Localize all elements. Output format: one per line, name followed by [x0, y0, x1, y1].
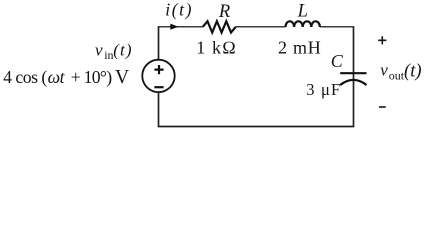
capacitor C top plate [340, 72, 366, 74]
source minus sign [154, 86, 163, 88]
inductor L [286, 21, 320, 27]
output plus sign [378, 36, 386, 44]
wire between inductor and top-right corner [320, 26, 354, 28]
resistor R [203, 21, 236, 32]
output minus sign [379, 106, 386, 108]
capacitor C curved plate [340, 80, 366, 85]
svg-text:(t): (t) [404, 61, 422, 81]
svg-text:out: out [389, 69, 405, 83]
svg-text:V: V [115, 67, 129, 88]
svg-text:v: v [380, 60, 388, 79]
svg-text:ω: ω [48, 67, 61, 87]
svg-text:2 mH: 2 mH [278, 38, 321, 58]
voltage source circle [142, 60, 174, 92]
svg-text:t: t [60, 67, 66, 87]
wire left vertical above source [158, 26, 160, 60]
svg-text:v: v [95, 40, 103, 59]
wire bottom [158, 126, 355, 128]
svg-text:R: R [218, 2, 230, 22]
svg-text:(t): (t) [113, 41, 132, 60]
svg-text:4 cos (: 4 cos ( [3, 67, 47, 87]
current arrow head [170, 24, 178, 30]
svg-text:+ 10°): + 10°) [71, 67, 113, 87]
wire right vertical [353, 27, 355, 127]
wire left vertical below source [158, 92, 160, 127]
source plus sign [154, 65, 163, 74]
svg-text:1 kΩ: 1 kΩ [196, 38, 236, 58]
svg-text:i(t): i(t) [165, 0, 191, 20]
wire top-left segment [159, 26, 203, 28]
svg-text:C: C [331, 51, 344, 71]
svg-text:3 μF: 3 μF [306, 80, 340, 99]
svg-text:in: in [104, 48, 113, 62]
wire between resistor and inductor [236, 26, 286, 28]
svg-text:L: L [297, 1, 308, 21]
